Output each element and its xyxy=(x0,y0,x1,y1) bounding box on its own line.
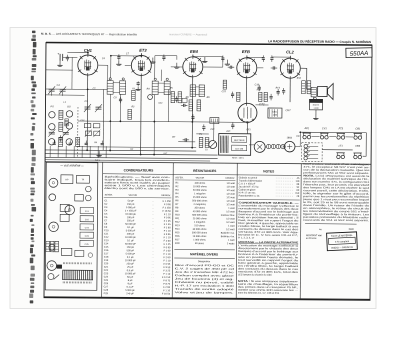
scanned page sheet xyxy=(10,28,376,309)
tuning gang CV1 xyxy=(84,104,91,112)
svg-text:OBSERV.: OBSERV. xyxy=(161,195,171,197)
tube V2 EF9 xyxy=(131,48,151,78)
tube V1 ECH3 xyxy=(78,48,98,77)
svg-text:F 16 50: F 16 50 xyxy=(162,293,171,296)
volume potentiometer P1 xyxy=(199,137,217,148)
svg-text:LES lampes du chassis du côté.: LES lampes du chassis du côté. xyxy=(238,273,273,276)
svg-text:CB4: CB4 xyxy=(355,145,360,148)
coil bank row 1 xyxy=(303,127,362,139)
grid resistors mid xyxy=(171,92,182,103)
svg-text:FT3: FT3 xyxy=(339,127,344,130)
svg-text:550AA: 550AA xyxy=(350,50,369,58)
wire top interconnects xyxy=(67,52,290,82)
ground antenna xyxy=(59,61,61,65)
svg-text:Potentiomètre a. int.: Potentiomètre a. int. xyxy=(239,194,261,197)
svg-text:CF1: CF1 xyxy=(246,129,251,131)
output transformer T2 xyxy=(268,108,291,118)
svg-text:SECT. 110 V.: SECT. 110 V. xyxy=(232,157,245,159)
svg-text:CT2: CT2 xyxy=(259,102,265,106)
svg-text:— VUE ARRIÈRE —: — VUE ARRIÈRE — xyxy=(59,164,84,167)
screen components V4 V5 xyxy=(256,89,280,105)
bus labels xyxy=(95,148,208,162)
band switch dashed link xyxy=(77,107,79,157)
antenna coupling capacitor C1 xyxy=(57,52,77,61)
svg-text:RÉFÉR.: RÉFÉR. xyxy=(105,194,113,197)
svg-text:SECTEUR: SECTEUR xyxy=(234,140,245,142)
cathode capacitor C6 under V2 xyxy=(132,81,141,90)
padder trimmers lower xyxy=(48,129,69,137)
screen decoupling capacitors xyxy=(119,84,285,105)
svg-text:C21: C21 xyxy=(210,129,215,131)
wire speaker to field coil xyxy=(313,97,315,99)
svg-text:électro sont de 500 v. de serv: électro sont de 500 v. de service. xyxy=(104,187,170,191)
svg-text:ET3: ET3 xyxy=(139,48,147,53)
rubber stamp xyxy=(327,232,358,251)
svg-text:GO: GO xyxy=(67,105,71,108)
detector load resistors R8 R9 xyxy=(189,100,201,121)
svg-text:monsieur CUMBRE — Argenteuil: monsieur CUMBRE — Argenteuil xyxy=(169,32,208,36)
grid stopper components xyxy=(223,66,277,102)
dial lamps xyxy=(266,144,285,149)
ground symbols schematic xyxy=(97,56,230,158)
svg-text:CR7: CR7 xyxy=(285,108,291,112)
montage paragraph xyxy=(238,241,300,277)
ballast tube V8 xyxy=(284,136,295,152)
wire coil bank bus xyxy=(300,132,366,156)
frame border xyxy=(44,43,372,301)
coupling capacitors top row xyxy=(66,54,274,63)
MF coupling box xyxy=(210,118,219,124)
svg-text:2×8 µF: 2×8 µF xyxy=(126,292,134,295)
power transformer T1 xyxy=(219,130,251,160)
svg-text:C15: C15 xyxy=(222,91,227,93)
svg-text:ALT.: ALT. xyxy=(225,130,231,133)
svg-text:CH: CH xyxy=(130,149,134,151)
diode junction node xyxy=(148,95,153,100)
scan gutter smudge xyxy=(29,31,38,304)
svg-text:CB1: CB1 xyxy=(355,127,360,130)
svg-text:CV1: CV1 xyxy=(322,127,327,130)
svg-text:Désignation: Désignation xyxy=(198,260,211,263)
divider line xyxy=(45,162,371,165)
padding coils L3 L4 xyxy=(48,137,79,146)
devis list column xyxy=(238,169,300,240)
coil bank row 2 xyxy=(336,145,362,159)
svg-text:RÉFÉR.: RÉFÉR. xyxy=(176,176,184,179)
svg-text:EFB: EFB xyxy=(242,49,250,54)
cathode components xyxy=(59,121,234,143)
svg-text:C29: C29 xyxy=(104,292,109,295)
tuning gang CV2 xyxy=(95,104,102,112)
svg-text:RÉSISTANCES: RÉSISTANCES xyxy=(193,168,217,173)
svg-text:couvrants de 551 et 552 sont s: couvrants de 551 et 552 sont séparés. xyxy=(303,219,370,223)
svg-text:NOTES: NOTES xyxy=(263,169,274,173)
trimmer CA2 xyxy=(59,86,66,96)
nota paragraph column 3 xyxy=(238,280,299,295)
svg-text:M. B. S. — LES DOCUMENTS TECHN: M. B. S. — LES DOCUMENTS TECHNIQUES RT —… xyxy=(41,32,137,37)
tuning section taps xyxy=(45,89,211,161)
svg-text:CONDENSATEURS: CONDENSATEURS xyxy=(124,168,155,172)
svg-text:entre les éléments C1, C7, C28: entre les éléments C1, C7, C28 et R14 xyxy=(238,292,280,295)
detector coupling parts xyxy=(181,98,188,107)
condensateurs table xyxy=(103,168,172,295)
svg-text:en France: en France xyxy=(306,237,317,240)
svg-text:LA RADIODIFFUSION DU RÉCEPTEUR: LA RADIODIFFUSION DU RÉCEPTEUR RADIO — C… xyxy=(268,38,371,44)
loudspeaker LS1 xyxy=(311,83,333,100)
svg-text:EB4: EB4 xyxy=(190,49,199,54)
price note box xyxy=(306,234,322,240)
component value labels xyxy=(56,53,302,140)
wire mid interconnects xyxy=(78,55,312,147)
svg-text:AP1: AP1 xyxy=(303,127,309,130)
svg-text:1 300: 1 300 xyxy=(313,108,319,110)
wave band switch S1 xyxy=(302,143,323,162)
svg-text:+: + xyxy=(57,52,59,56)
column rules xyxy=(102,162,302,299)
svg-text:C24: C24 xyxy=(296,135,301,138)
IF transformer MF2 xyxy=(152,78,170,95)
svg-text:CA: CA xyxy=(57,84,61,87)
svg-text:110-130: 110-130 xyxy=(235,149,244,151)
wire AVC line xyxy=(46,89,108,95)
svg-text:P. 1, 2, 3, 4, 17: P. 1, 2, 3, 4, 17 xyxy=(238,236,255,239)
oscillator coil block L1 L2 xyxy=(49,105,73,131)
svg-text:2 watts: 2 watts xyxy=(227,242,235,245)
svg-text:PO: PO xyxy=(50,105,54,108)
ground coil bank xyxy=(315,117,317,119)
wire junction dots xyxy=(86,52,302,157)
svg-text:CV: CV xyxy=(85,101,89,103)
field coil / excitation block xyxy=(309,99,322,110)
svg-text:R12: R12 xyxy=(297,78,302,80)
svg-text:HP: HP xyxy=(65,179,69,181)
svg-text:EXCIT.: EXCIT. xyxy=(313,105,320,107)
svg-text:VALEUR: VALEUR xyxy=(196,177,205,180)
tube V3 EBF2 xyxy=(183,49,203,79)
tube V6 EBL1 second row xyxy=(238,102,265,123)
article text column 4 xyxy=(301,163,370,232)
svg-text:C18: C18 xyxy=(255,84,260,86)
IF transformer MF1 xyxy=(107,78,126,95)
svg-text:VALEUR: VALEUR xyxy=(128,194,137,197)
wire antenna feed lines xyxy=(46,57,73,89)
chassis layout diagram xyxy=(45,162,98,290)
trimmer CA1 xyxy=(48,86,55,96)
svg-text:Valve et jeu de lampes.: Valve et jeu de lampes. xyxy=(175,291,235,294)
resistances table xyxy=(174,168,236,295)
svg-text:R18: R18 xyxy=(175,242,180,245)
svg-text:CELL: CELL xyxy=(272,112,278,114)
decoupling resistors R12 R13 xyxy=(302,81,311,94)
svg-text:S1: S1 xyxy=(205,149,208,151)
svg-text:OBSERV.: OBSERV. xyxy=(225,178,235,180)
wire bottom bus lines xyxy=(45,147,218,159)
svg-text:CL2: CL2 xyxy=(286,49,294,54)
wire tube drops xyxy=(87,76,316,156)
svg-text:1939: 1939 xyxy=(348,228,354,231)
tube V4 EF6 xyxy=(237,49,257,80)
svg-text:1883: 1883 xyxy=(287,136,293,139)
AVC resistors xyxy=(128,90,135,119)
model number box 550AA xyxy=(346,48,372,58)
svg-text:MONTANT réel: MONTANT réel xyxy=(306,234,322,237)
svg-text:LT1: LT1 xyxy=(339,145,344,148)
svg-text:50 ohms: 50 ohms xyxy=(195,242,205,245)
svg-text:MATÉRIEL DIVERS: MATÉRIEL DIVERS xyxy=(190,251,218,256)
IF transformer MF3 xyxy=(190,85,205,97)
tube V5 EL3 xyxy=(280,49,300,80)
rectifier tube V7 xyxy=(254,141,265,152)
